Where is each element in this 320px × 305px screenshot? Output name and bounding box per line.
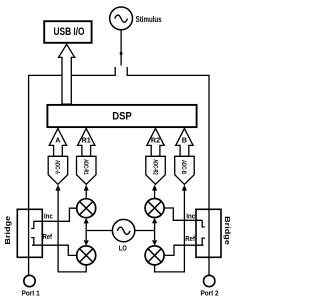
svg-text:Bridge: Bridge (4, 215, 12, 244)
arrowhead LO into mixer UR (152, 218, 157, 224)
mixer LL (77, 246, 96, 265)
svg-text:ADC-R1: ADC-R1 (82, 159, 88, 175)
coupler hook upper left bridge (31, 221, 34, 228)
wire Inc left (34, 208, 77, 221)
port 2 connector (204, 275, 215, 286)
arrowhead into ADC-R1 (84, 185, 89, 191)
mixer UL (77, 199, 96, 218)
wire mixer UL output to ADC-R1 (85, 190, 87, 199)
port 1 connector (24, 275, 35, 286)
node switch pole dot (120, 52, 123, 55)
wire Inc right (164, 208, 202, 220)
wire stimulus vertical (120, 30, 122, 66)
wire mixer LR output to ADC-B (155, 190, 185, 272)
source LO (112, 219, 134, 241)
box bridge right (196, 209, 221, 257)
wire Ref left (32, 245, 77, 255)
svg-text:DSP: DSP (112, 110, 132, 122)
wire LO to right mixers (135, 222, 155, 241)
arrowhead LO into mixer UL (84, 218, 89, 224)
arrowhead into ADC-A (55, 185, 60, 191)
svg-text:R2: R2 (151, 136, 160, 145)
wire switch to left bridge (29, 75, 116, 275)
block arrow R1 to DSP (78, 128, 95, 156)
arrowhead LO into mixer LL (84, 240, 89, 246)
svg-text:Port 2: Port 2 (200, 288, 218, 297)
svg-text:USB I/O: USB I/O (54, 26, 85, 38)
block arrow B to DSP (176, 128, 193, 156)
coupler hook lower left bridge (31, 238, 34, 246)
svg-text:Inc: Inc (44, 211, 53, 220)
ADC-B converter (175, 156, 195, 184)
wire LO to left mixers (86, 222, 113, 241)
box USB I/O (44, 21, 91, 43)
mixer UR (145, 199, 164, 218)
svg-text:Port 1: Port 1 (22, 288, 40, 297)
wire switch left contact stub (114, 67, 116, 76)
arrowhead into ADC-B (182, 185, 187, 191)
svg-text:LO: LO (119, 244, 127, 253)
svg-text:ADC-R2: ADC-R2 (151, 159, 157, 175)
block arrow R2 to DSP (147, 128, 164, 156)
wire Ref right (164, 245, 203, 255)
svg-text:A: A (55, 136, 60, 145)
source stimulus (110, 7, 133, 30)
box bridge left (17, 209, 42, 257)
block arrow A to DSP (49, 128, 66, 156)
svg-text:R1: R1 (82, 136, 91, 145)
coupler hook lower right bridge (202, 238, 205, 245)
arrowhead LO into mixer LR (152, 240, 157, 246)
ADC-R2 converter (146, 156, 166, 184)
mixer LR (145, 246, 164, 265)
block arrow DSP to USB I/O (59, 44, 75, 104)
wire mixer UR output to ADC-R2 (154, 190, 156, 199)
wire switch right contact stub (126, 67, 128, 76)
wire switch to right bridge (127, 75, 209, 275)
svg-text:B: B (182, 136, 187, 145)
ADC-R1 converter (77, 156, 97, 184)
svg-text:Stimulus: Stimulus (136, 15, 162, 24)
svg-text:ADC-A: ADC-A (54, 160, 60, 174)
svg-text:Bridge: Bridge (223, 216, 231, 245)
arrowhead into ADC-R2 (152, 185, 157, 191)
svg-text:Ref: Ref (185, 234, 195, 243)
svg-text:Ref: Ref (43, 232, 53, 241)
coupler hook upper right bridge (202, 220, 205, 227)
ADC-A converter (48, 156, 67, 184)
wire mixer LL output to ADC-A (58, 190, 86, 272)
box DSP (47, 105, 196, 127)
svg-text:ADC-B: ADC-B (180, 160, 186, 174)
svg-text:Inc: Inc (186, 211, 195, 220)
